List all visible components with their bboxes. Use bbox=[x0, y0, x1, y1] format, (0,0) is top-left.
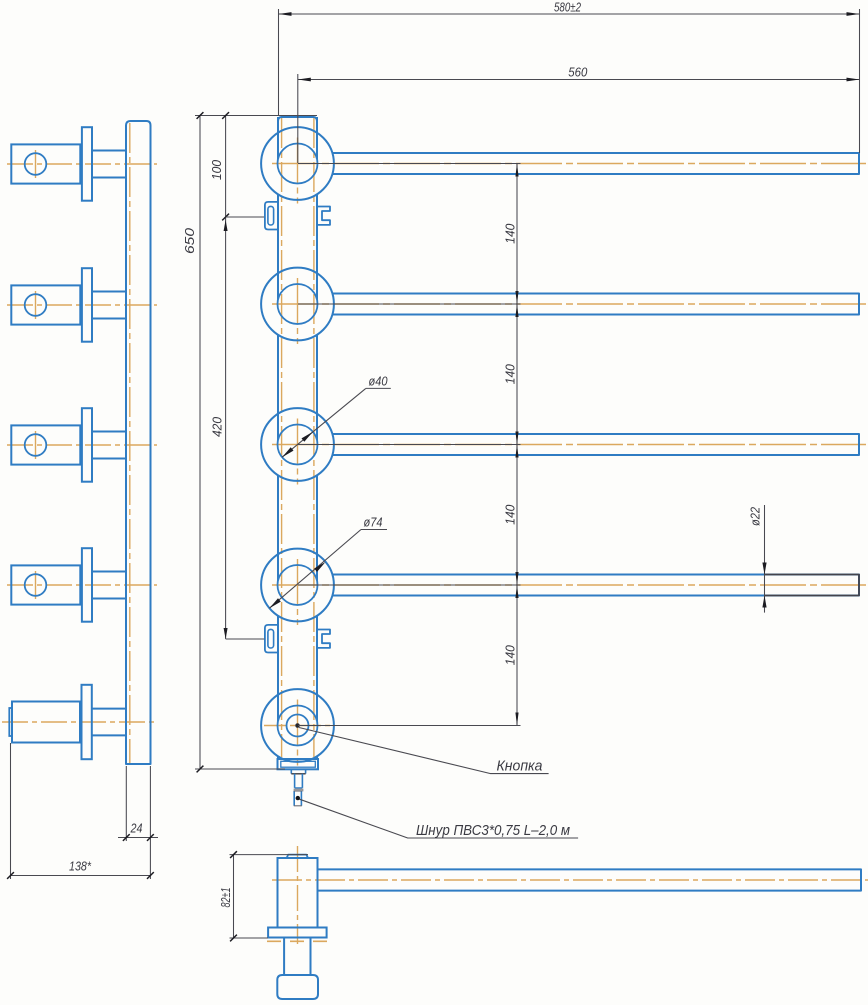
svg-text:560: 560 bbox=[568, 65, 588, 80]
svg-text:Шнур ПВС3*0,75 L–2,0 м: Шнур ПВС3*0,75 L–2,0 м bbox=[416, 822, 570, 839]
svg-text:138*: 138* bbox=[69, 859, 92, 874]
svg-text:140: 140 bbox=[502, 223, 517, 244]
svg-text:ø40: ø40 bbox=[369, 374, 389, 389]
svg-text:650: 650 bbox=[182, 227, 197, 254]
svg-text:ø74: ø74 bbox=[364, 515, 383, 530]
svg-text:140: 140 bbox=[502, 364, 517, 385]
svg-text:24: 24 bbox=[130, 821, 143, 836]
svg-text:Кнопка: Кнопка bbox=[497, 759, 543, 775]
svg-text:100: 100 bbox=[209, 159, 224, 180]
svg-text:82±1: 82±1 bbox=[218, 888, 233, 908]
svg-text:140: 140 bbox=[502, 645, 517, 666]
svg-text:580±2: 580±2 bbox=[554, 0, 582, 15]
svg-text:ø22: ø22 bbox=[748, 506, 763, 526]
svg-text:140: 140 bbox=[502, 504, 517, 525]
svg-text:420: 420 bbox=[210, 416, 225, 437]
